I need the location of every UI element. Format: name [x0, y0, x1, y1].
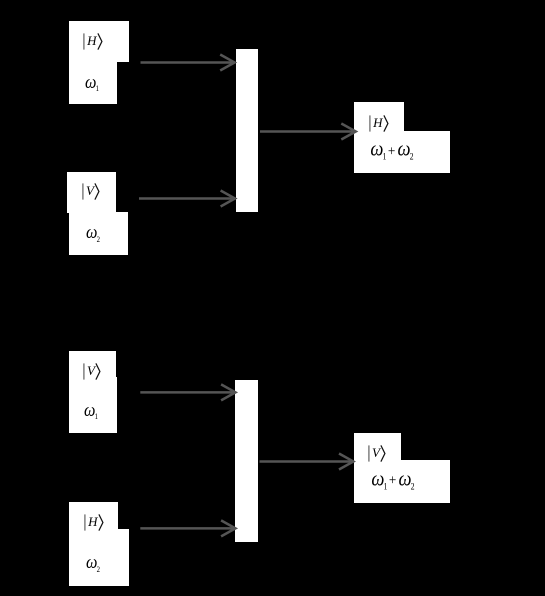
label w1 bottom input: [84, 401, 98, 422]
input box H/w2 upper rect (bottom half): [69, 502, 119, 530]
label w1 top input: [85, 72, 99, 93]
svg-text:H: H: [86, 33, 97, 48]
svg-text:V: V: [86, 183, 96, 198]
arrow input 1 top: [141, 55, 235, 71]
label ket |V> bottom output: [368, 445, 386, 462]
input box V/w2 upper rect: [67, 172, 116, 213]
arrow input 2 top: [139, 191, 235, 207]
label w1+w2 bottom output: [371, 468, 414, 491]
label ket |H> top input: [83, 33, 103, 50]
output box H upper rect: [354, 102, 404, 132]
arrow output top: [260, 124, 356, 140]
input box H/w1 lower rect: [69, 62, 117, 104]
arrow output bottom: [260, 454, 354, 470]
crystal 2: [235, 380, 258, 543]
arrow input 2 bottom: [140, 520, 235, 536]
label ket |H> bottom input: [84, 514, 104, 531]
input box V/w1 lower rect (bottom half): [69, 377, 117, 434]
input box V/w1 upper rect (bottom half): [69, 351, 116, 377]
input box V/w2 lower rect: [69, 212, 129, 255]
output box V lower rect: [354, 460, 450, 503]
svg-text:H: H: [87, 514, 98, 529]
svg-text:V: V: [372, 445, 382, 460]
output box V upper rect: [354, 433, 401, 461]
arrow input 1 bottom: [140, 384, 235, 400]
label ket |V> top input: [82, 183, 100, 200]
label w2 bottom input: [86, 553, 100, 574]
label w2 top input: [86, 223, 100, 244]
input box H/w2 lower rect (bottom half): [69, 529, 129, 586]
label w1+w2 top output: [371, 139, 414, 162]
input box H/w1 upper rect: [69, 21, 129, 62]
crystal 1: [236, 49, 258, 212]
output box H lower rect: [354, 131, 450, 173]
svg-text:H: H: [372, 115, 383, 130]
label ket |V> bottom input: [83, 363, 101, 380]
label ket |H> top output: [369, 115, 389, 132]
svg-text:V: V: [87, 363, 97, 378]
